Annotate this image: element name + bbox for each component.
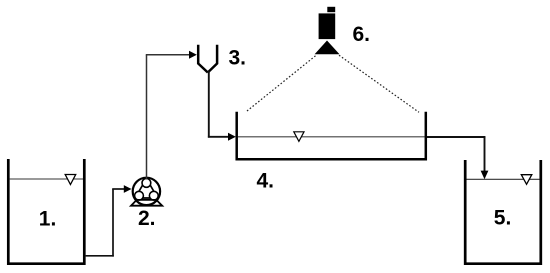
wire riser to pump inlet (vertical) — [112, 189, 114, 257]
lamp reflector triangle — [315, 41, 340, 55]
wire into reactor (horizontal) — [208, 136, 230, 138]
roller bottom-left — [135, 191, 144, 200]
svg-text:6.: 6. — [353, 23, 371, 46]
wire funnel stem down (vertical) — [208, 71, 210, 138]
roller bottom-right — [149, 191, 158, 200]
svg-text:5.: 5. — [494, 206, 512, 229]
pump body circle — [133, 178, 160, 205]
reactor channel 4 (open shallow basin) — [237, 112, 426, 160]
light ray right (dotted) — [339, 55, 419, 112]
water level line tank 1 — [10, 178, 83, 180]
lamp body — [319, 13, 336, 39]
wire drop into tank 5 (vertical) — [484, 136, 486, 171]
water level line tank 5 — [467, 178, 540, 180]
roller top — [142, 179, 151, 188]
arrowhead into tank 5 — [481, 171, 489, 180]
tank 5 (collection tank, open top) — [465, 160, 541, 264]
arrowhead into pump — [124, 185, 132, 193]
water level symbol tank 5 — [521, 175, 532, 185]
svg-text:3.: 3. — [229, 47, 247, 70]
rotor triangle — [135, 179, 158, 198]
arrowhead into reactor — [228, 133, 236, 141]
arrowhead into funnel — [189, 51, 197, 59]
pump P (peristaltic) 2 — [131, 178, 162, 206]
water level line reactor — [238, 136, 425, 138]
svg-text:1.: 1. — [39, 207, 57, 230]
svg-text:4.: 4. — [257, 170, 275, 193]
water level symbol reactor — [294, 132, 304, 142]
wire to funnel (horizontal) — [146, 54, 191, 56]
light ray left (dotted) — [246, 56, 316, 112]
pump stand trapezoid — [131, 200, 162, 206]
water level symbol tank 1 — [65, 175, 76, 185]
lamp 6 (UV lamp) — [315, 7, 340, 54]
lamp cap — [327, 7, 335, 12]
wire reactor outlet (horizontal) — [427, 136, 485, 138]
svg-text:2.: 2. — [138, 207, 156, 230]
wire pump outlet riser (vertical) — [146, 55, 148, 180]
wire tank1 outlet to pump (horizontal bottom) — [86, 255, 114, 257]
funnel 3 — [198, 45, 217, 73]
tank 1 (feed tank, open top) — [8, 159, 84, 264]
wire pump inlet (horizontal) — [112, 188, 125, 190]
